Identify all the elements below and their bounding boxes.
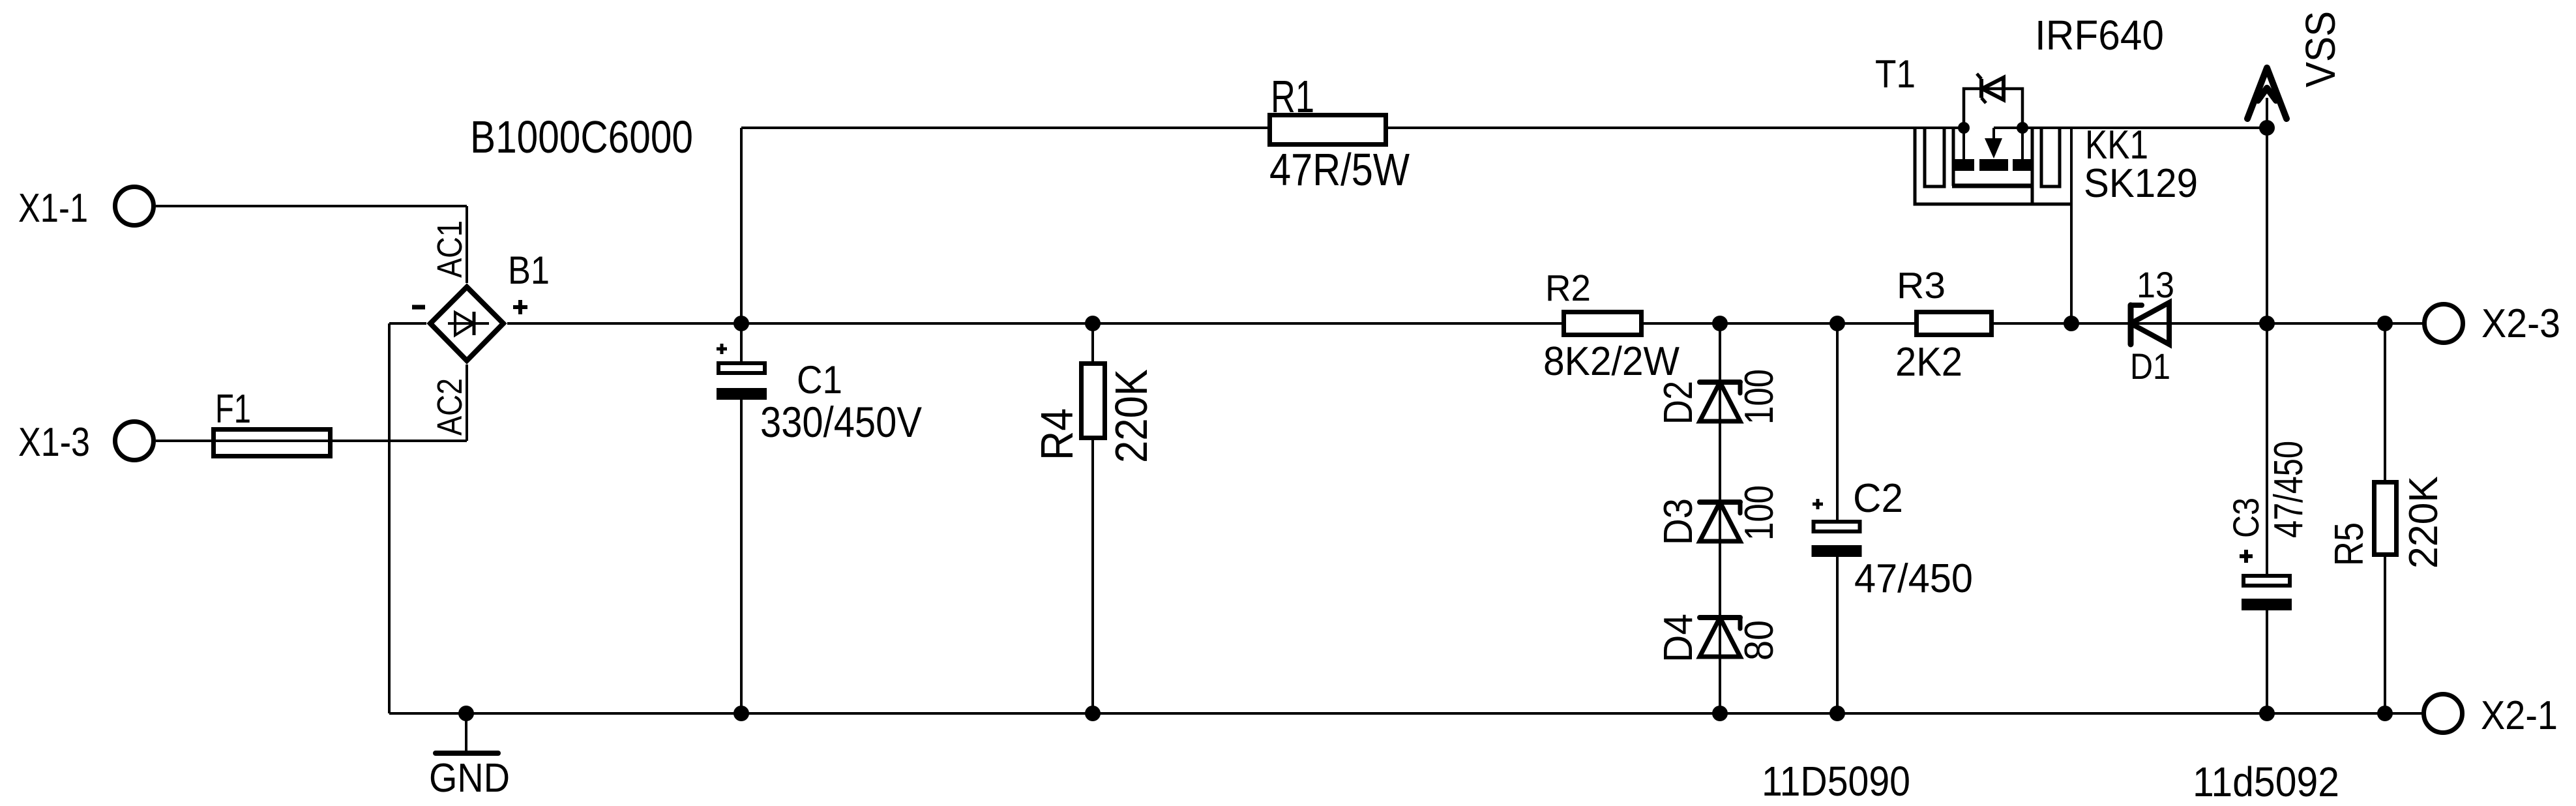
svg-text:SK129: SK129 xyxy=(2084,161,2198,206)
svg-text:T1: T1 xyxy=(1875,52,1916,96)
svg-text:330/450V: 330/450V xyxy=(760,398,922,446)
svg-text:100: 100 xyxy=(1737,485,1782,541)
svg-text:AC1: AC1 xyxy=(430,220,469,278)
svg-text:11D5090: 11D5090 xyxy=(1762,758,1910,805)
svg-text:R2: R2 xyxy=(1545,267,1591,309)
svg-text:47/450: 47/450 xyxy=(2266,441,2311,538)
svg-text:GND: GND xyxy=(429,756,510,801)
svg-text:47/450: 47/450 xyxy=(1854,556,1973,601)
svg-text:IRF640: IRF640 xyxy=(2035,12,2164,59)
svg-text:100: 100 xyxy=(1737,369,1782,425)
svg-text:R4: R4 xyxy=(1031,408,1082,460)
svg-text:11d5092: 11d5092 xyxy=(2193,758,2339,805)
svg-text:X2-1: X2-1 xyxy=(2481,693,2558,738)
svg-text:47R/5W: 47R/5W xyxy=(1269,144,1410,195)
svg-text:F1: F1 xyxy=(215,387,251,432)
svg-text:C2: C2 xyxy=(1853,476,1903,521)
svg-text:D2: D2 xyxy=(1656,381,1701,425)
svg-text:D3: D3 xyxy=(1656,498,1701,545)
svg-text:220K: 220K xyxy=(1106,369,1157,463)
svg-text:8K2/2W: 8K2/2W xyxy=(1543,339,1680,384)
svg-text:X2-3: X2-3 xyxy=(2481,301,2560,346)
svg-text:80: 80 xyxy=(1737,620,1782,661)
svg-text:X1-3: X1-3 xyxy=(18,420,90,465)
svg-text:2K2: 2K2 xyxy=(1895,340,1962,385)
svg-text:D4: D4 xyxy=(1656,614,1701,663)
svg-text:D1: D1 xyxy=(2130,346,2170,387)
svg-text:C1: C1 xyxy=(797,358,842,402)
svg-text:B1000C6000: B1000C6000 xyxy=(470,112,693,162)
svg-text:X1-1: X1-1 xyxy=(18,186,88,231)
svg-text:C3: C3 xyxy=(2225,498,2266,538)
svg-text:220K: 220K xyxy=(2401,476,2446,569)
svg-text:R3: R3 xyxy=(1897,265,1946,306)
svg-text:R5: R5 xyxy=(2327,522,2372,566)
svg-text:AC2: AC2 xyxy=(430,378,469,436)
svg-text:13: 13 xyxy=(2137,264,2174,305)
svg-text:VSS: VSS xyxy=(2297,11,2344,87)
svg-text:B1: B1 xyxy=(508,248,550,292)
svg-text:R1: R1 xyxy=(1271,71,1314,122)
